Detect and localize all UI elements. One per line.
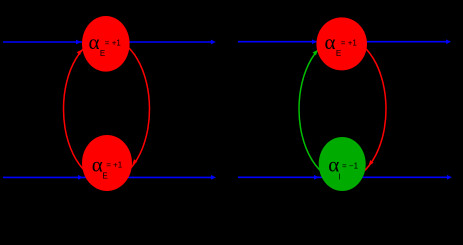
right top quark line: [238, 41, 448, 43]
left diagram: gluon loop (red ellipse): [64, 38, 150, 181]
mid arrow: [78, 175, 83, 180]
svg-text:= +1: = +1: [341, 38, 358, 47]
right bottom blob I=-1: [319, 137, 366, 191]
svg-text:E: E: [336, 49, 341, 58]
svg-text:= +1: = +1: [106, 161, 123, 170]
svg-text:= +1: = +1: [105, 38, 122, 47]
svg-text:I: I: [338, 173, 340, 182]
end arrow: [446, 39, 451, 44]
arrowhead on left arc (pointing into top blob): [77, 50, 82, 56]
end arrow: [211, 175, 216, 180]
end arrow: [447, 175, 452, 180]
left bottom quark line: [3, 176, 212, 178]
end arrow: [211, 40, 216, 45]
svg-text:= −1: = −1: [342, 162, 359, 171]
arrowhead green arc top: [313, 50, 318, 56]
right top blob E=+1: [316, 17, 367, 70]
left top blob E=+1: [82, 16, 130, 72]
svg-text:α: α: [92, 153, 103, 177]
left bottom blob E=+1: [82, 135, 132, 191]
arrowhead red arc bottom: [369, 160, 374, 166]
mid arrow: [312, 39, 317, 44]
mid arrow: [76, 40, 81, 45]
left top quark line: [3, 41, 212, 43]
svg-text:α: α: [89, 30, 100, 54]
svg-text:E: E: [100, 49, 105, 58]
arrowhead on right arc (pointing into bottom blob): [132, 159, 137, 165]
svg-text:α: α: [325, 30, 336, 54]
right diagram: loop with green left arc, red right arc: [299, 38, 343, 181]
svg-text:E: E: [102, 172, 107, 181]
mid arrow: [314, 175, 319, 180]
right bottom quark line: [238, 176, 448, 178]
